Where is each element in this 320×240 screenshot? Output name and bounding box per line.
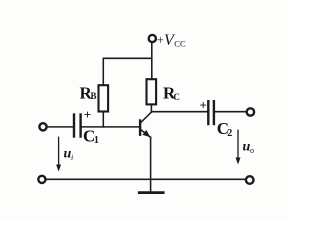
svg-text:B: B — [91, 91, 97, 101]
terminal input top — [39, 123, 46, 130]
svg-text:2: 2 — [227, 128, 232, 139]
wire bottom rail — [45, 178, 245, 180]
svg-text:C: C — [173, 92, 180, 102]
transistor Q1 (NPN) — [140, 112, 151, 137]
svg-text:1: 1 — [94, 135, 99, 146]
terminal input bottom — [38, 176, 45, 183]
svg-text:o: o — [250, 146, 254, 155]
resistor RC — [147, 79, 157, 104]
wire emitter to ground — [150, 137, 152, 192]
arrow ui — [56, 137, 61, 171]
label RB — [80, 83, 97, 102]
wire top branch to RB — [103, 58, 152, 85]
label uo — [243, 140, 255, 156]
label C1 — [83, 127, 99, 146]
terminal output top — [247, 108, 254, 115]
wire C1 to transistor base — [82, 126, 139, 128]
terminal output bottom — [246, 176, 254, 184]
wire input terminal to C1 — [47, 126, 73, 128]
label ui — [64, 147, 74, 163]
ground — [139, 191, 163, 194]
wire RC bottom to collector node — [150, 104, 152, 112]
label +VCC — [157, 32, 186, 49]
arrow uo — [236, 130, 241, 164]
label C2 — [217, 119, 232, 139]
svg-text:i: i — [71, 153, 73, 162]
resistor RB — [99, 85, 109, 111]
svg-text:+: + — [84, 107, 91, 122]
wire VCC vertical to RC top — [151, 43, 153, 80]
capacitor C2 — [208, 101, 214, 124]
wire RB bottom to base node — [102, 112, 104, 127]
svg-text:+: + — [200, 98, 207, 113]
label RC — [163, 83, 180, 102]
capacitor C1 — [74, 115, 81, 137]
wire collector node to C2 — [151, 111, 207, 113]
terminal +VCC — [149, 35, 156, 42]
svg-text:CC: CC — [174, 38, 186, 48]
wire C2 to output terminal — [215, 111, 246, 113]
svg-text:+: + — [157, 33, 164, 47]
